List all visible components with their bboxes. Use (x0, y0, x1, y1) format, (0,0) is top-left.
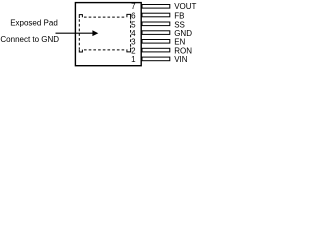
svg-text:3: 3 (131, 38, 136, 47)
svg-text:1: 1 (131, 55, 136, 64)
pin 1 pad (142, 57, 170, 61)
svg-text:Connect to GND: Connect to GND (0, 35, 59, 44)
svg-text:2: 2 (131, 46, 136, 55)
pin 3 pad (142, 40, 170, 44)
exposed pad dashed outline: left edge (78, 19, 80, 49)
svg-text:5: 5 (131, 20, 136, 29)
IC package U1 outline (75, 3, 141, 66)
pin 6 pad (142, 13, 170, 17)
arrow pointing to exposed pad (56, 30, 99, 36)
exposed pad dashed outline: bottom edge (84, 49, 125, 51)
svg-text:RON: RON (174, 46, 192, 55)
svg-text:FB: FB (174, 11, 184, 20)
svg-text:EN: EN (174, 38, 185, 47)
exposed pad corner tab bottom-left (79, 49, 82, 52)
pin 7 pad (142, 5, 170, 9)
pin 2 pad (142, 48, 170, 52)
pin 5 pad (142, 22, 170, 26)
svg-text:7: 7 (131, 2, 136, 11)
svg-text:Exposed Pad: Exposed Pad (10, 19, 58, 28)
exposed pad corner tab top-right (127, 14, 131, 19)
svg-text:6: 6 (131, 11, 136, 20)
pin 4 pad (142, 31, 170, 35)
exposed pad corner tab bottom-right (127, 48, 131, 52)
svg-text:VIN: VIN (174, 55, 188, 64)
exposed pad corner tab top-left (79, 15, 82, 18)
exposed pad dashed outline: right edge (130, 21, 132, 48)
svg-text:SS: SS (174, 20, 185, 29)
exposed pad dashed outline: top edge (84, 16, 125, 18)
svg-text:VOUT: VOUT (174, 2, 196, 11)
